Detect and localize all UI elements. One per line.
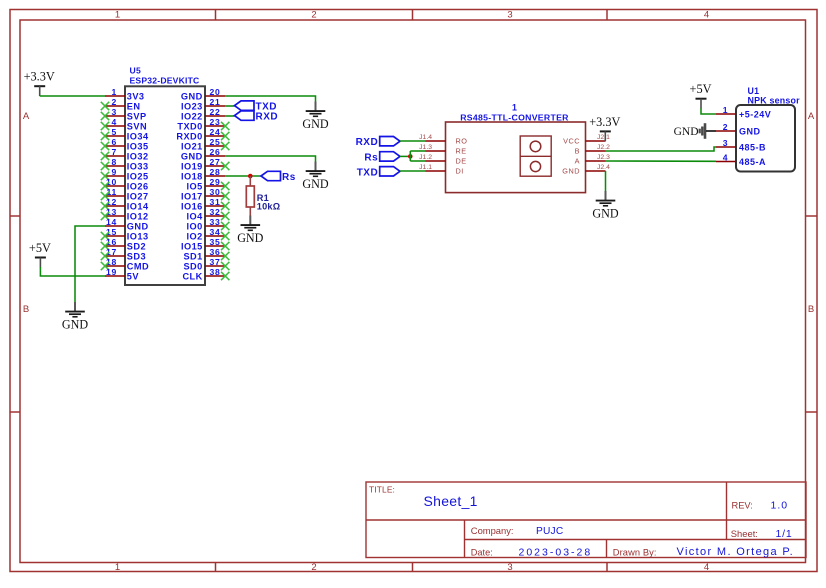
- svg-text:RS485-TTL-CONVERTER: RS485-TTL-CONVERTER: [460, 112, 569, 122]
- svg-text:485-A: 485-A: [739, 157, 766, 167]
- ground below R1: [237, 216, 263, 245]
- svg-text:IO23: IO23: [181, 101, 203, 111]
- svg-text:485-B: 485-B: [739, 142, 766, 152]
- U1 pin 2 (GND): [716, 122, 761, 137]
- sensor U1 NPK body: [736, 105, 795, 172]
- U5 pin 20 (GND): [181, 87, 225, 101]
- U5 pin 33 (IO0): [187, 217, 230, 231]
- ground below U5 pin 14: [62, 302, 88, 331]
- svg-text:GND: GND: [181, 151, 203, 161]
- U5 pin 15 (IO13): [101, 227, 149, 241]
- svg-text:1: 1: [723, 105, 728, 115]
- svg-text:35: 35: [210, 237, 221, 247]
- svg-text:31: 31: [210, 197, 221, 207]
- svg-text:2: 2: [112, 97, 117, 107]
- U5 pin 22 (IO22): [181, 107, 225, 121]
- svg-text:IO5: IO5: [187, 181, 203, 191]
- power symbol +3.3V at U5 pin 1: [24, 70, 55, 96]
- svg-text:RE: RE: [456, 147, 467, 156]
- svg-text:GND: GND: [562, 167, 580, 176]
- net flag TXD (at converter DI): [357, 167, 400, 179]
- wire net +5V to U1 pin 1: [701, 108, 716, 114]
- svg-text:NPK sensor: NPK sensor: [748, 95, 801, 105]
- net flag RXD (at converter RO): [356, 137, 400, 149]
- svg-text:7: 7: [112, 147, 117, 157]
- converter pin J2.2 (B): [575, 144, 610, 155]
- svg-text:ESP32-DEVKITC: ESP32-DEVKITC: [130, 75, 200, 85]
- wire Rs to converter DE: [410, 160, 425, 162]
- svg-text:IO13: IO13: [127, 231, 149, 241]
- ground net tag GND at U1 pin 2: [674, 123, 705, 139]
- wire converter GND down: [605, 171, 607, 191]
- svg-text:23: 23: [210, 117, 221, 127]
- net flag TXD (at U5 pin 21): [235, 101, 278, 113]
- svg-text:3: 3: [507, 562, 512, 573]
- title block: [366, 482, 806, 558]
- wire RXD to converter RO: [400, 140, 426, 142]
- svg-text:32: 32: [210, 207, 221, 217]
- svg-text:IO34: IO34: [127, 131, 149, 141]
- wire converter B to U1 485-B: [606, 147, 717, 151]
- U5 pin 35 (IO15): [181, 237, 229, 251]
- U5 pin 27 (IO19): [181, 157, 229, 171]
- U1 pin 4 (485-A): [716, 152, 766, 167]
- svg-text:9: 9: [112, 167, 117, 177]
- svg-text:4: 4: [723, 152, 728, 162]
- wire R1 bottom lead: [249, 207, 251, 216]
- svg-text:VCC: VCC: [563, 137, 580, 146]
- svg-text:REV:: REV:: [732, 501, 753, 511]
- svg-text:21: 21: [210, 97, 221, 107]
- svg-text:4: 4: [704, 10, 709, 21]
- ground at U5 pin 20: [302, 102, 328, 131]
- wire Rs to converter RE: [410, 150, 425, 152]
- svg-text:U5: U5: [130, 66, 142, 76]
- U5 pin 12 (IO14): [101, 197, 149, 211]
- U5 pin 18 (CMD): [101, 257, 149, 271]
- svg-text:J2.2: J2.2: [597, 144, 610, 151]
- wire U5 pin 21 to TXD flag: [225, 105, 235, 107]
- svg-text:IO21: IO21: [181, 141, 203, 151]
- U5 pin 23 (TXD0): [177, 117, 229, 131]
- U5 pin 26 (GND): [181, 147, 225, 161]
- U5 pin 5 (IO34): [101, 127, 149, 141]
- wire Rs flag to junction: [400, 155, 410, 157]
- svg-text:1: 1: [512, 103, 517, 113]
- svg-text:TXD: TXD: [357, 167, 379, 178]
- converter pin J1.1 (DI): [419, 164, 464, 175]
- svg-text:Sheet_1: Sheet_1: [424, 493, 478, 509]
- svg-text:A: A: [575, 157, 580, 166]
- svg-text:SD1: SD1: [183, 251, 202, 261]
- svg-text:30: 30: [210, 187, 221, 197]
- U5 pin 11 (IO27): [101, 187, 149, 201]
- svg-text:J2.3: J2.3: [597, 154, 610, 161]
- svg-text:27: 27: [210, 157, 221, 167]
- svg-text:A: A: [808, 111, 815, 122]
- svg-text:IO22: IO22: [181, 111, 203, 121]
- svg-text:33: 33: [210, 217, 221, 227]
- U5 pin 8 (IO33): [101, 157, 149, 171]
- svg-text:J1.3: J1.3: [419, 144, 432, 151]
- svg-text:10: 10: [106, 177, 117, 187]
- converter pin J1.3 (RE): [419, 144, 467, 155]
- svg-text:26: 26: [210, 147, 221, 157]
- svg-text:+3.3V: +3.3V: [24, 70, 55, 84]
- svg-text:GND: GND: [302, 117, 328, 131]
- U5 pin 37 (SD0): [183, 257, 229, 271]
- U5 pin 19 (5V): [105, 267, 139, 281]
- svg-text:J1.1: J1.1: [419, 164, 432, 171]
- wire net +3.3V to U5 pin 1: [40, 95, 105, 97]
- svg-text:IO35: IO35: [127, 141, 149, 151]
- svg-text:1.0: 1.0: [771, 500, 789, 512]
- svg-text:+5V: +5V: [690, 82, 712, 96]
- U5 pin 14 (GND): [105, 217, 149, 231]
- svg-text:DE: DE: [456, 157, 467, 166]
- svg-text:17: 17: [106, 247, 117, 257]
- svg-text:IO2: IO2: [187, 231, 203, 241]
- svg-text:J2.4: J2.4: [597, 164, 610, 171]
- svg-text:EN: EN: [127, 101, 141, 111]
- svg-text:14: 14: [106, 217, 117, 227]
- U5 pin 9 (IO25): [101, 167, 149, 181]
- wire TXD to converter DI: [400, 170, 426, 172]
- svg-text:1/1: 1/1: [776, 528, 793, 540]
- U5 pin 1 (3V3): [105, 87, 145, 101]
- svg-text:Date:: Date:: [471, 547, 493, 557]
- wire GND tag to U1 pin 2: [706, 130, 716, 132]
- svg-text:B: B: [808, 304, 814, 315]
- svg-text:GND: GND: [739, 126, 761, 136]
- svg-text:B: B: [23, 304, 29, 315]
- svg-text:1: 1: [115, 562, 120, 573]
- svg-text:IO33: IO33: [127, 161, 149, 171]
- U5 pin 30 (IO17): [181, 187, 229, 201]
- svg-text:37: 37: [210, 257, 221, 267]
- svg-text:GND: GND: [62, 317, 88, 331]
- svg-text:13: 13: [106, 207, 117, 217]
- svg-text:4: 4: [112, 117, 117, 127]
- svg-text:J1.4: J1.4: [419, 134, 432, 141]
- svg-text:RXD0: RXD0: [176, 131, 202, 141]
- svg-text:3: 3: [507, 10, 512, 21]
- svg-text:GND: GND: [674, 126, 699, 138]
- svg-text:RXD: RXD: [356, 137, 379, 148]
- svg-text:SD2: SD2: [127, 241, 146, 251]
- U5 pin 2 (EN): [101, 97, 141, 111]
- svg-text:3: 3: [723, 138, 728, 148]
- svg-text:SD0: SD0: [183, 261, 202, 271]
- svg-text:IO26: IO26: [127, 181, 149, 191]
- U5 pin 29 (IO5): [187, 177, 230, 191]
- svg-text:8: 8: [112, 157, 117, 167]
- svg-text:18: 18: [106, 257, 117, 267]
- wire converter A to U1 485-A: [606, 160, 717, 162]
- svg-text:Company:: Company:: [471, 525, 514, 536]
- svg-text:GND: GND: [127, 221, 149, 231]
- svg-text:Victor M. Ortega P.: Victor M. Ortega P.: [677, 546, 795, 558]
- net flag Rs (at converter RE/DE): [364, 152, 400, 164]
- net flag Rs (at U5 pin 28): [261, 171, 296, 183]
- svg-text:3: 3: [112, 107, 117, 117]
- svg-text:GND: GND: [237, 231, 263, 245]
- svg-text:IO12: IO12: [127, 211, 149, 221]
- converter pin J1.4 (RO): [419, 134, 467, 145]
- svg-text:B: B: [575, 147, 580, 156]
- U5 pin 25 (IO21): [181, 137, 229, 151]
- junction at U5 pin 28 net: [248, 174, 253, 179]
- svg-text:TXD0: TXD0: [177, 121, 202, 131]
- svg-text:12: 12: [106, 197, 117, 207]
- svg-text:CMD: CMD: [127, 261, 149, 271]
- svg-text:IO16: IO16: [181, 201, 203, 211]
- U5 pin 38 (CLK): [182, 267, 229, 281]
- converter pin J2.4 (GND): [562, 164, 610, 175]
- net flag RXD (at U5 pin 22): [235, 111, 279, 123]
- svg-text:GND: GND: [592, 206, 618, 220]
- svg-text:IO25: IO25: [127, 171, 149, 181]
- svg-text:Sheet:: Sheet:: [731, 528, 758, 539]
- svg-text:4: 4: [704, 562, 709, 573]
- svg-text:DI: DI: [456, 167, 464, 176]
- U5 pin 6 (IO35): [101, 137, 149, 151]
- svg-text:1: 1: [115, 10, 120, 21]
- svg-text:IO27: IO27: [127, 191, 149, 201]
- svg-text:GND: GND: [181, 91, 203, 101]
- svg-text:2: 2: [311, 562, 316, 573]
- svg-text:25: 25: [210, 137, 221, 147]
- svg-text:6: 6: [112, 137, 117, 147]
- converter pin J2.1 (VCC): [563, 134, 610, 145]
- svg-text:2023-03-28: 2023-03-28: [519, 546, 593, 558]
- svg-text:+5V: +5V: [29, 241, 51, 255]
- ground at U5 pin 26: [302, 162, 328, 191]
- svg-text:16: 16: [106, 237, 117, 247]
- power symbol +5V at U1 pin 1: [690, 82, 712, 108]
- U5 pin 21 (IO23): [181, 97, 225, 111]
- U5 pin 7 (IO32): [101, 147, 149, 161]
- U1 pin 3 (485-B): [716, 138, 766, 153]
- svg-text:22: 22: [210, 107, 221, 117]
- svg-text:10kΩ: 10kΩ: [257, 202, 281, 212]
- svg-text:24: 24: [210, 127, 221, 137]
- wire U5 pin 20 to ground: [225, 96, 316, 102]
- svg-text:15: 15: [106, 227, 117, 237]
- svg-text:IO19: IO19: [181, 161, 203, 171]
- svg-text:IO32: IO32: [127, 151, 149, 161]
- converter pin J1.2 (DE): [419, 154, 467, 165]
- svg-text:A: A: [23, 111, 30, 122]
- U1 pin 1 (+5-24V): [716, 105, 771, 120]
- U5 pin 16 (SD2): [101, 237, 146, 251]
- U5 pin 24 (RXD0): [176, 127, 229, 141]
- wire U5 pin 26 to ground: [225, 156, 316, 162]
- svg-text:5V: 5V: [127, 271, 140, 281]
- svg-text:Rs: Rs: [364, 152, 378, 163]
- U5 pin 31 (IO16): [181, 197, 229, 211]
- U5 pin 32 (IO4): [187, 207, 230, 221]
- svg-text:IO0: IO0: [187, 221, 203, 231]
- svg-text:CLK: CLK: [182, 271, 202, 281]
- power symbol +3.3V at converter VCC: [589, 115, 620, 141]
- converter pin J2.3 (A): [575, 154, 610, 165]
- IC U5 ESP32-DEVKITC body: [125, 86, 205, 285]
- svg-text:IO17: IO17: [181, 191, 203, 201]
- svg-text:IO15: IO15: [181, 241, 203, 251]
- svg-text:SVP: SVP: [127, 111, 147, 121]
- wire Rs junction vertical: [409, 151, 411, 161]
- U5 pin 4 (SVN): [101, 117, 147, 131]
- wire U5 pin 22 to RXD flag: [225, 115, 235, 117]
- svg-text:36: 36: [210, 247, 221, 257]
- power symbol +5V at U5 pin 19: [29, 241, 51, 267]
- svg-text:J2.1: J2.1: [597, 134, 610, 141]
- wire U5 pin 28 to Rs flag: [225, 175, 261, 177]
- U5 pin 3 (SVP): [101, 107, 147, 121]
- resistor R1 10k: [246, 186, 254, 207]
- svg-text:Rs: Rs: [282, 172, 296, 183]
- svg-text:2: 2: [723, 122, 728, 132]
- svg-text:IO4: IO4: [187, 211, 204, 221]
- ground below converter: [592, 191, 618, 220]
- U5 pin 17 (SD3): [101, 247, 146, 261]
- svg-text:GND: GND: [302, 177, 328, 191]
- svg-text:5: 5: [112, 127, 117, 137]
- U5 pin 34 (IO2): [187, 227, 230, 241]
- svg-text:SVN: SVN: [127, 121, 147, 131]
- svg-text:34: 34: [210, 227, 221, 237]
- svg-text:TITLE:: TITLE:: [369, 484, 395, 494]
- svg-text:J1.2: J1.2: [419, 154, 432, 161]
- svg-text:SD3: SD3: [127, 251, 146, 261]
- junction Rs net split: [408, 154, 413, 159]
- svg-text:38: 38: [210, 267, 221, 277]
- svg-text:+5-24V: +5-24V: [739, 109, 771, 119]
- U5 pin 28 (IO18): [181, 167, 225, 181]
- svg-text:IO14: IO14: [127, 201, 149, 211]
- svg-text:Drawn By:: Drawn By:: [613, 547, 657, 557]
- U5 pin 36 (SD1): [183, 247, 229, 261]
- svg-text:20: 20: [210, 87, 221, 97]
- U5 pin 10 (IO26): [101, 177, 149, 191]
- wire net +5V to U5 pin 19: [40, 267, 105, 276]
- svg-text:28: 28: [210, 167, 221, 177]
- wire junction down to R1 (lead): [249, 176, 251, 187]
- wire U5 pin 14 GND down-left: [75, 226, 105, 302]
- svg-text:+3.3V: +3.3V: [589, 115, 620, 129]
- module 1 RS485-TTL-CONVERTER body: [446, 122, 586, 193]
- svg-text:29: 29: [210, 177, 221, 187]
- svg-text:RO: RO: [456, 137, 468, 146]
- svg-text:3V3: 3V3: [127, 91, 145, 101]
- svg-text:1: 1: [112, 87, 117, 97]
- U5 pin 13 (IO12): [101, 207, 149, 221]
- svg-text:RXD: RXD: [256, 112, 279, 123]
- svg-text:PUJC: PUJC: [536, 526, 563, 537]
- svg-text:19: 19: [106, 267, 117, 277]
- svg-text:2: 2: [311, 10, 316, 21]
- svg-text:IO18: IO18: [181, 171, 203, 181]
